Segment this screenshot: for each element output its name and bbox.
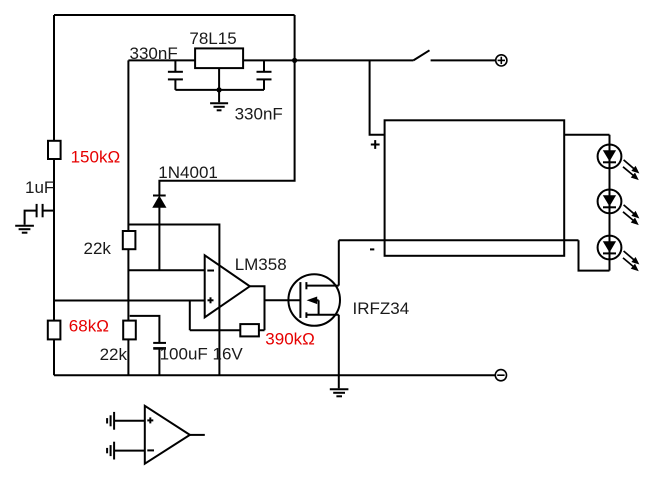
wire switch contact to plus terminal — [431, 59, 496, 61]
wire left 330nF top lead — [174, 60, 176, 71]
load box plus marker — [371, 140, 380, 149]
LED D1 light arrows — [623, 160, 638, 179]
wire feedback vertical to non-inverting input — [189, 301, 191, 331]
svg-text:78L15: 78L15 — [189, 29, 236, 48]
wire right 330nF bottom lead — [263, 79, 265, 90]
wire mosfet drain to minus node — [338, 240, 340, 285]
op-amp minus label — [207, 270, 214, 272]
mosfet Q-IRFZ34 — [288, 274, 340, 326]
capacitor C-100uF plates — [153, 343, 166, 349]
capacitor C-330nF-left plates — [168, 72, 183, 80]
wire right vertical from top rail down to diode level — [159, 15, 294, 196]
LED D2 light arrows — [623, 205, 638, 224]
switch SW1 blade — [413, 50, 429, 60]
wire feedback horizontal through 390k — [190, 329, 265, 331]
LED D3 — [598, 236, 622, 260]
terminal plus — [496, 55, 507, 66]
svg-text:1uF: 1uF — [25, 178, 54, 197]
wire LED string vertical — [609, 135, 611, 271]
terminal minus — [495, 370, 506, 381]
wire plus from switch node down to load box — [370, 60, 385, 134]
capacitor C-330nF-right plates — [257, 72, 272, 80]
wire 78L15 gnd pin — [218, 68, 220, 90]
wire bottom rail — [54, 374, 495, 376]
wire node row under diode to op-amp power rail — [128, 225, 219, 376]
svg-text:1N4001: 1N4001 — [158, 163, 218, 182]
legend op-amp minus label — [147, 449, 154, 451]
svg-text:330nF: 330nF — [130, 44, 178, 63]
wire 100uF bottom lead — [158, 348, 160, 375]
svg-text:330nF: 330nF — [235, 105, 283, 124]
ground under mosfet source — [330, 375, 349, 396]
ground under 78L15 — [210, 103, 228, 110]
resistor R-390k — [240, 324, 259, 336]
wire non-inverting input — [54, 300, 205, 302]
wire 1uF left lead to ground — [25, 211, 37, 225]
op-amp plus label — [208, 297, 214, 303]
resistor R-22k-top — [123, 231, 136, 249]
wire 78L15 ground bus — [175, 89, 264, 91]
svg-text:68kΩ: 68kΩ — [69, 317, 109, 336]
mosfet body arrow head — [307, 297, 318, 305]
svg-text:LM358: LM358 — [235, 255, 287, 274]
op-amp U-LM358 triangle — [205, 255, 250, 317]
load box module — [385, 120, 565, 256]
wire load box right to LED string bottom — [579, 240, 610, 270]
legend op-amp top input wire — [115, 420, 145, 422]
ground under 1uF — [15, 226, 34, 233]
LED D2 — [598, 190, 622, 214]
wire 1uF tap from left rail — [43, 210, 54, 212]
wire gate — [265, 299, 301, 301]
svg-text:IRFZ34: IRFZ34 — [353, 299, 410, 318]
resistor R-68k — [48, 321, 61, 340]
diode D-1N4001 — [153, 196, 166, 208]
load box minus marker — [370, 248, 374, 250]
resistor R-150k — [48, 141, 61, 159]
LED D3 light arrows — [623, 251, 638, 270]
wire top rail horizontal — [54, 14, 295, 16]
wire op-amp output — [250, 286, 265, 330]
legend rotated ground bottom input — [107, 442, 114, 460]
resistor R-22k-bottom — [123, 321, 136, 340]
wire 78L15 input from rail2 corner — [128, 59, 195, 61]
junction dot at 78L15 ground bus — [217, 87, 222, 92]
wire left rail vertical — [53, 15, 55, 375]
legend rotated ground top input — [107, 412, 114, 430]
svg-text:150kΩ: 150kΩ — [71, 148, 121, 167]
svg-text:22k: 22k — [84, 239, 112, 258]
svg-text:100uF 16V: 100uF 16V — [160, 345, 244, 364]
wire 78L15 ground stub — [218, 90, 220, 102]
legend op-amp bottom input wire — [115, 450, 145, 452]
wire mosfet source to bottom rail — [338, 315, 340, 375]
wire load box right to LED string top — [564, 134, 609, 136]
LED D1 — [598, 145, 622, 169]
regulator U-78L15 body — [195, 48, 243, 68]
capacitor C-1uF plates — [37, 204, 43, 217]
wire right 330nF top lead — [263, 60, 265, 71]
wire left 330nF bottom lead — [174, 79, 176, 90]
svg-text:390kΩ: 390kΩ — [265, 330, 315, 349]
junction dot at 78L15 output node — [292, 58, 297, 63]
svg-text:22k: 22k — [100, 345, 128, 364]
wire 78L15 output to switch — [243, 59, 413, 61]
wire rail2 vertical x=128.4 — [127, 60, 129, 375]
wire inverting input — [128, 269, 204, 271]
wire diode cathode rail down to inverting input wire — [158, 207, 160, 270]
wire minus crossing through load box — [339, 239, 579, 241]
legend op-amp output stub — [190, 434, 205, 436]
wire 100uF tap from rail2 — [130, 316, 160, 342]
legend op-amp plus label — [147, 417, 153, 423]
legend op-amp triangle — [145, 406, 190, 464]
